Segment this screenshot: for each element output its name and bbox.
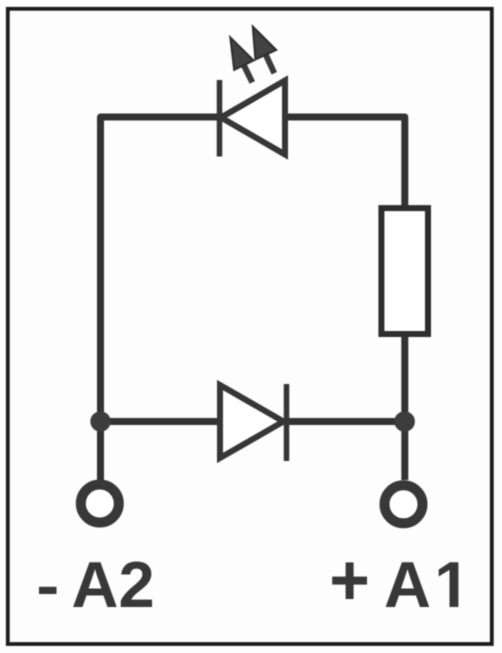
LED emission arrow 2 (right) shaft [265,53,274,73]
terminal A2 circle [81,485,119,523]
junction dot left [90,411,110,431]
LED emission arrow 1 (left) shaft [243,64,252,83]
wire resistor bottom to right junction and terminal [401,334,408,480]
diode V1 cathode bar [284,384,290,461]
LED emission arrow 2 head [253,27,276,60]
diode V1 triangle (points right) [220,385,284,458]
LED D1 triangle (points left) [221,81,285,155]
terminal A1 circle [385,485,423,523]
junction dot right [394,411,415,432]
wire bottom row: left junction to diode and diode to right junction [101,418,405,425]
wire top-right: LED cathode side to right rail down to resistor [284,117,405,208]
LED emission arrow 1 head [230,37,253,70]
label minus sign for A2 [39,587,57,594]
LED D1 cathode bar [217,80,223,157]
wire top-left loop: LED anode to left rail down to junction and terminal [101,117,223,480]
svg-text:A2: A2 [72,548,155,621]
label A1 digit 1 [439,562,459,607]
label plus sign for A1 [332,577,367,585]
resistor R1 body [381,208,428,334]
svg-text:A: A [384,548,431,621]
